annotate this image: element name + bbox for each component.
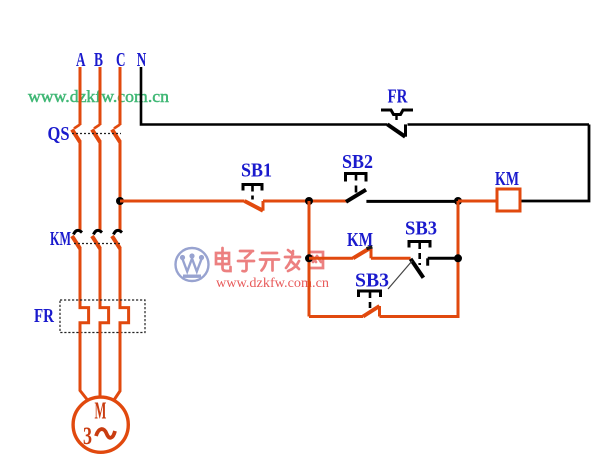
- phase line B mid: [99, 141, 102, 231]
- SB3 NO actuator: [359, 291, 381, 312]
- phase line B: [99, 67, 102, 125]
- motor feed line A: [80, 328, 88, 400]
- svg-text:SB2: SB2: [342, 151, 373, 173]
- wire KM aux to SB3 NC: [371, 257, 411, 260]
- KM aux NO blade: [353, 248, 371, 259]
- wire bottom left to SB3 NO: [309, 315, 363, 318]
- wire neutral N down and across to right: [141, 67, 589, 125]
- KM main contact pole 1: [72, 230, 82, 248]
- svg-text:FR: FR: [34, 305, 54, 327]
- QS gang dotted link: [72, 133, 121, 135]
- watermark chinese char wang: [309, 252, 323, 268]
- watermark chinese char zi: [238, 251, 254, 271]
- SB1 NC blade: [245, 201, 264, 211]
- FR heater element 2: [100, 304, 109, 329]
- motor feed line C: [114, 328, 120, 400]
- svg-text:SB3: SB3: [405, 218, 437, 240]
- node left mid: [305, 254, 313, 262]
- wire SB3 NO to right vertical: [380, 315, 460, 318]
- node right mid: [454, 254, 462, 262]
- phase line A mid: [79, 141, 82, 231]
- watermark chinese char dian: [216, 248, 231, 271]
- control wire SB2 to node right (black): [366, 200, 458, 203]
- SB3 NC blade: [411, 259, 424, 278]
- svg-text:SB1: SB1: [241, 160, 272, 182]
- SB3 NC right hook: [426, 258, 429, 265]
- control wire SB1 to SB2: [263, 200, 347, 203]
- motor feed line B: [99, 328, 102, 398]
- motor M circle: [73, 397, 128, 452]
- SB1 button actuator: [243, 185, 262, 200]
- KM coil box: [497, 189, 520, 211]
- svg-text:KM: KM: [495, 168, 519, 190]
- linkage line SB3: [388, 261, 412, 289]
- FR heater element 3: [120, 304, 129, 329]
- FR heater dashed box: [60, 300, 145, 333]
- FR thermal contact blade (NC): [387, 122, 407, 137]
- phase line C mid: [119, 141, 122, 231]
- QS switch pole 3: [112, 125, 120, 143]
- node left top: [305, 197, 313, 205]
- wire SB3 NC to right node (black): [428, 257, 458, 260]
- phase line B lower: [99, 247, 102, 308]
- QS switch pole 2: [92, 125, 100, 143]
- FR heater element 1: [80, 304, 89, 329]
- watermark logo W circle: [176, 248, 209, 281]
- node right top: [454, 197, 462, 205]
- svg-text:KM: KM: [50, 228, 71, 250]
- svg-text:SB3: SB3: [355, 270, 389, 292]
- KM main contact pole 2: [92, 230, 102, 248]
- svg-text:www.dzkfw.com.cn: www.dzkfw.com.cn: [216, 275, 329, 290]
- svg-text:FR: FR: [388, 86, 408, 108]
- motor tilde: [96, 429, 115, 438]
- svg-text:M: M: [95, 399, 107, 425]
- phase line C lower: [119, 247, 122, 308]
- SB3 NO blade: [363, 306, 380, 317]
- wire right side drop to coil: [520, 125, 589, 202]
- svg-text:QS: QS: [48, 123, 70, 145]
- phase line C: [119, 67, 122, 125]
- SB2 button actuator: [346, 174, 367, 193]
- right branch vertical: [457, 201, 460, 317]
- KM aux blade tip mark: [367, 247, 373, 249]
- left branch vertical: [308, 201, 311, 317]
- phase line A lower: [79, 247, 82, 308]
- KM gang dotted link: [74, 243, 121, 245]
- watermark chinese char kai: [260, 253, 279, 271]
- watermark logo W dots: [180, 253, 204, 278]
- KM main contact pole 3: [112, 230, 122, 248]
- watermark chinese char fa: [285, 250, 300, 271]
- control wire from node C to SB1: [120, 200, 245, 203]
- wire node to KM aux: [309, 257, 353, 260]
- SB2 NO blade: [346, 190, 366, 202]
- wire node to KM coil: [458, 200, 497, 203]
- svg-text:3: 3: [83, 423, 92, 450]
- node junction on C: [116, 197, 124, 205]
- phase line A: [79, 67, 82, 125]
- FR thermal contact actuator: [381, 110, 413, 124]
- SB3 NC actuator: [409, 242, 430, 266]
- QS switch pole 1: [72, 125, 80, 143]
